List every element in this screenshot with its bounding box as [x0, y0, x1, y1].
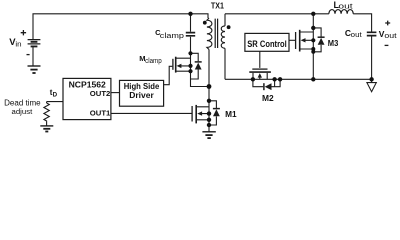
svg-text:High Side: High Side	[124, 82, 160, 91]
svg-text:clamp: clamp	[145, 58, 162, 65]
svg-text:M3: M3	[328, 39, 339, 48]
svg-text:M2: M2	[262, 94, 274, 103]
svg-text:OUT1: OUT1	[90, 109, 111, 118]
svg-text:TX1: TX1	[211, 1, 224, 10]
svg-text:out: out	[384, 33, 396, 40]
svg-text:out: out	[351, 32, 362, 39]
svg-text:adjust: adjust	[12, 107, 34, 116]
svg-text:D: D	[53, 92, 58, 99]
svg-text:Driver: Driver	[129, 91, 154, 100]
svg-text:clamp: clamp	[160, 33, 184, 40]
svg-text:SR Control: SR Control	[247, 39, 287, 49]
svg-text:in: in	[15, 41, 21, 48]
svg-text:OUT2: OUT2	[90, 89, 111, 98]
svg-text:M1: M1	[225, 110, 237, 119]
svg-text:out: out	[338, 4, 352, 11]
